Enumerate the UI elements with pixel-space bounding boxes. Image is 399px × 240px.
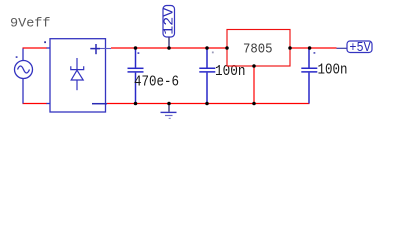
svg-text:7805: 7805	[243, 41, 273, 57]
label +5V	[347, 41, 372, 56]
capacitor C2 100n	[199, 48, 215, 104]
svg-text:+5V: +5V	[349, 41, 371, 56]
capacitor C1 470e-6	[128, 48, 144, 104]
plus mark (bridge + output)	[90, 44, 100, 54]
bridge rectifier B1 box	[44, 39, 111, 112]
wire 7805 ground pin	[253, 66, 255, 104]
regulator U1 7805 box	[227, 30, 290, 67]
svg-text:9Veff: 9Veff	[10, 16, 51, 31]
label 9Veff	[10, 16, 51, 31]
svg-text:12V: 12V	[162, 7, 177, 35]
svg-text:100n: 100n	[318, 62, 348, 79]
label 100n (C2)	[215, 63, 246, 80]
wire bottom rail	[107, 103, 309, 105]
wire output rail (7805 to +5V)	[290, 47, 347, 49]
minus mark (bridge - output)	[92, 103, 107, 105]
wire top rail (bridge to 7805 input)	[111, 47, 227, 49]
label 470e-6	[134, 73, 179, 90]
AC source V1	[15, 49, 33, 104]
wire top-left (source to bridge)	[23, 47, 48, 49]
svg-text:470e-6: 470e-6	[134, 73, 179, 90]
ground	[161, 104, 177, 119]
wire bottom-left (source to bridge)	[23, 103, 48, 105]
voltmeter label 12V	[162, 6, 177, 49]
diode D inside bridge	[71, 58, 84, 90]
label 100n (C3)	[318, 62, 348, 79]
junction node dots	[134, 46, 312, 105]
capacitor C3 100n	[301, 48, 317, 104]
